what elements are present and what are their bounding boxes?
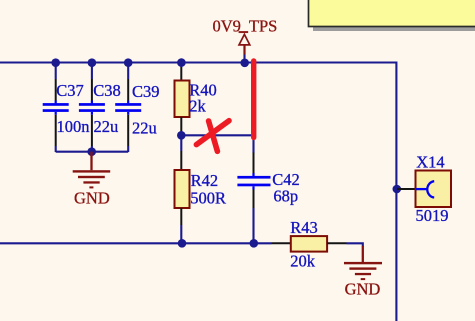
svg-text:TPS: TPS	[249, 17, 277, 36]
svg-text:22u: 22u	[94, 117, 119, 136]
svg-text:C38: C38	[93, 81, 121, 100]
node: top rail / power junction	[240, 59, 249, 68]
node: bottom rail / R42 junction	[178, 239, 187, 248]
wire: caps bottom rail to GND	[56, 151, 129, 153]
wire: R43 to GND	[347, 243, 363, 246]
resistor R43	[254, 218, 347, 270]
node: R40/R42/C42 junction	[177, 131, 186, 140]
ground: GND right of R43	[344, 246, 382, 299]
svg-text:R43: R43	[290, 218, 318, 237]
capacitor C37	[43, 63, 90, 152]
capacitor C42	[237, 153, 299, 244]
svg-text:2k: 2k	[189, 97, 206, 116]
svg-text:68p: 68p	[273, 187, 298, 206]
svg-text:500R: 500R	[190, 188, 226, 207]
wire: bottom rail	[0, 242, 254, 244]
annotation: red X (delete mark)	[196, 121, 229, 152]
node: right bus / X14 junction	[393, 185, 402, 194]
node: bottom rail / C42 junction	[250, 239, 259, 248]
svg-text:GND: GND	[345, 279, 381, 298]
node: top rail / C39 junction	[124, 58, 133, 67]
svg-text:100n: 100n	[57, 117, 90, 136]
node: top rail / C37 junction	[51, 58, 60, 67]
ground: GND below C38	[73, 147, 111, 207]
connector X14	[397, 153, 451, 226]
resistor R40	[175, 63, 217, 135]
svg-text:20k: 20k	[290, 251, 316, 270]
capacitor C39	[115, 63, 159, 152]
svg-text:GND: GND	[74, 188, 110, 207]
note shadow	[313, 2, 475, 31]
svg-text:22u: 22u	[132, 118, 157, 137]
svg-text:C37: C37	[56, 81, 84, 100]
svg-text:0V9: 0V9	[213, 17, 241, 36]
svg-text:X14: X14	[416, 153, 444, 172]
wire: top 0V9_TPS rail	[0, 63, 396, 321]
resistor R42	[175, 135, 226, 243]
svg-text:C39: C39	[132, 82, 160, 101]
power port: 0V9_TPS	[213, 17, 278, 61]
node: top rail / C38 junction	[88, 58, 97, 67]
node: top rail / R40 junction	[177, 58, 186, 67]
svg-text:5019: 5019	[416, 206, 449, 225]
note box (yellow sticky, clipped top-right)	[309, 0, 475, 27]
capacitor C38	[79, 63, 121, 152]
annotation: red mark line (suggested wire)	[251, 61, 256, 138]
wire: R40 bottom to C42 top	[181, 135, 253, 153]
svg-text:R42: R42	[191, 171, 219, 190]
